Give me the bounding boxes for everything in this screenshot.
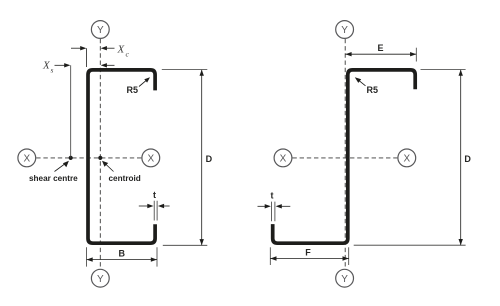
shear centre vertical reference line [70,65,72,158]
dimension D line with arrows (right fig) [459,70,463,246]
shear centre leader arrow [55,161,69,172]
svg-text:t: t [271,191,274,201]
dimension Xs left arrow [55,63,71,67]
axis circle X far-left [18,149,36,167]
svg-text:t: t [153,190,156,200]
svg-text:X: X [23,154,30,165]
svg-text:X: X [280,154,287,165]
svg-text:Y: Y [341,274,348,285]
radius R5 leader arrow (left) [139,77,150,86]
centroid Y axis dashed line (right figure) [344,39,346,269]
dimension Xc right arrow [101,46,115,50]
Z-section outline [273,70,416,243]
svg-text:D: D [464,154,471,164]
dimension Xs label [42,60,54,75]
dimension E extension line [415,48,417,62]
centroid leader arrow [102,161,114,172]
dimension F line with arrows [270,256,348,260]
svg-text:Y: Y [341,25,348,36]
dimension F extension lines [270,247,348,265]
dimension F label [305,248,311,258]
dimension D line with arrows (left fig) [200,70,204,246]
thickness t left arrow (right fig) [258,204,271,208]
svg-text:centroid: centroid [109,174,141,183]
svg-text:Y: Y [97,274,104,285]
centroid label [109,174,141,183]
axis circle Y bottom-left [91,269,109,287]
X axis dashed line (right figure) [292,157,397,159]
radius R5 label (left) [127,85,139,95]
shear centre label [29,174,78,183]
axis circle Y top-right [336,21,354,39]
dimension B label [119,249,126,259]
axis circle Y bottom-right [336,269,354,287]
thickness t extension lines (right fig) [272,202,275,222]
dimension E label [377,43,383,53]
svg-text:Y: Y [97,25,104,36]
dimension Xc left arrow [71,46,86,50]
thickness t right arrow (left fig) [158,204,170,208]
C-section outline [88,70,155,243]
thickness t extension lines (left) [154,201,157,221]
svg-text:X: X [147,154,154,165]
axis circle X mid-right [274,149,292,167]
dimension D extension lines (left fig) [162,70,208,246]
radius R5 label (right) [367,85,379,95]
dimension Xc label [117,44,130,59]
svg-text:X: X [403,154,410,165]
centroid point [98,156,102,160]
axis circle X far-right [398,149,416,167]
X axis dashed line (left figure) [36,157,141,159]
svg-text:X: X [117,44,126,56]
dimension D extension lines (right fig) [354,70,466,246]
svg-text:shear centre: shear centre [29,174,78,183]
svg-text:R5: R5 [127,85,139,95]
thickness t right arrow (right fig) [276,204,291,208]
dimension Xc extension line at web face [85,48,87,67]
axis circle Y top-left [91,21,109,39]
dimension D label (right fig) [464,154,471,164]
dimension B line with arrows [87,257,158,261]
svg-text:F: F [305,248,311,258]
svg-text:D: D [206,154,213,164]
shear centre point [69,156,73,160]
thickness t left arrow (left fig) [139,204,154,208]
dimension D label (left fig) [206,154,213,164]
svg-text:s: s [51,66,54,75]
dimension B extension lines [87,247,158,266]
dimension E line with arrows [345,52,416,56]
thickness t label (right fig) [271,191,274,201]
axis circle X mid-left [142,149,160,167]
svg-text:R5: R5 [367,85,379,95]
dimension Xs right arrow [101,63,115,67]
centroid Y axis dashed line (left figure) [99,39,101,269]
svg-text:B: B [119,249,126,259]
radius R5 leader arrow (right) [355,77,366,86]
thickness t label (left) [153,190,156,200]
svg-text:E: E [377,43,383,53]
